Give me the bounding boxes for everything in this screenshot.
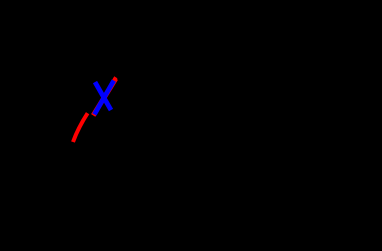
red arrowhead	[113, 76, 118, 81]
red curved arrow (upper shaft under blue X)	[93, 79, 116, 116]
blue X cross-out stroke A (top-left to bottom-right)	[95, 82, 111, 110]
red curved arrow (lower arc segment)	[73, 113, 88, 142]
blue X cross-out stroke B (top-right to bottom-left)	[94, 81, 113, 115]
